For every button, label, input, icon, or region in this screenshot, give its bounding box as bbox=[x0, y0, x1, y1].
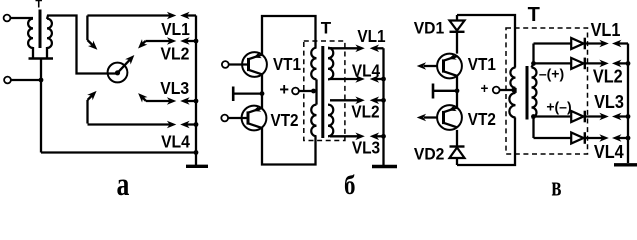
label VT2 (fig b) bbox=[271, 110, 299, 130]
svg-text:VL1: VL1 bbox=[357, 27, 385, 46]
wire VD2 to transformer (fig v) bbox=[457, 118, 515, 166]
lamp VL1 (fig b) bbox=[330, 45, 384, 53]
base arrow VT2 (fig v) bbox=[417, 114, 437, 122]
transformer T (fig b) dashed box bbox=[304, 41, 345, 141]
label VL2 (fig v) bbox=[593, 66, 623, 87]
svg-text:VD1: VD1 bbox=[414, 19, 445, 37]
svg-text:VL2: VL2 bbox=[593, 66, 623, 87]
lamp VL4 (fig b) bbox=[330, 75, 384, 83]
primary upper winding (fig v) bbox=[510, 68, 515, 88]
svg-text:VL3: VL3 bbox=[594, 91, 624, 112]
label VL4 (fig b) bbox=[352, 61, 381, 80]
label VD1 (fig v) bbox=[414, 19, 445, 37]
label VL2 (fig b) bbox=[351, 102, 379, 121]
terminal + center tap (fig b) bbox=[279, 81, 316, 99]
transformer bottom bar (fig a) bbox=[29, 47, 54, 59]
junction VL4/bus (fig b) bbox=[381, 77, 386, 82]
switch contact arrow to VL4 bbox=[87, 88, 99, 123]
label +(-) (fig v) bbox=[546, 99, 571, 115]
svg-text:VL4: VL4 bbox=[161, 132, 191, 152]
terminal + center tap (fig v) bbox=[481, 81, 516, 96]
common bar (fig v) bbox=[433, 84, 457, 99]
label T (fig a) bbox=[35, 0, 42, 11]
label v (fig v) bbox=[551, 171, 561, 203]
junction rows 3-4 (fig v) bbox=[531, 114, 536, 119]
label VL3 (fig v) bbox=[594, 91, 624, 112]
right bus (fig v) bbox=[627, 44, 629, 164]
junction bottom/bus bbox=[194, 150, 199, 155]
wire VD1 to transformer (fig v) bbox=[457, 15, 515, 68]
label T (fig v) bbox=[528, 4, 540, 26]
transformer T (fig a) secondary winding bbox=[47, 19, 52, 48]
primary lower winding (fig v) bbox=[509, 93, 515, 118]
svg-text:VT2: VT2 bbox=[271, 110, 299, 130]
label VL4 (fig v) bbox=[594, 141, 624, 162]
switch contact arrow to VL2 bbox=[135, 39, 147, 51]
svg-text:VL2: VL2 bbox=[351, 102, 379, 121]
secondary winding (fig v) bbox=[532, 68, 537, 118]
diode+lamp VL2 (fig v) bbox=[534, 58, 629, 70]
transistor VT2 (fig v) bbox=[437, 105, 462, 130]
junction VL4/bus bbox=[194, 122, 199, 127]
right bus (fig b) bbox=[382, 48, 384, 165]
primary center link (fig v) bbox=[514, 88, 516, 93]
switch contact arrow to VL1 bbox=[87, 16, 100, 53]
label VL2 (fig a) bbox=[161, 44, 190, 64]
wire secondary to VL1 (fig b) bbox=[328, 47, 332, 49]
transistor VT2 (fig b) bbox=[242, 105, 267, 130]
label VL3 (fig a) bbox=[160, 78, 189, 98]
svg-text:T: T bbox=[35, 0, 42, 11]
label VL3 (fig b) bbox=[352, 139, 380, 158]
svg-text:+(–): +(–) bbox=[546, 99, 571, 115]
center tap wire (fig a) bbox=[40, 59, 42, 153]
svg-text:в: в bbox=[551, 171, 561, 197]
lamp VL2 (fig a) bbox=[146, 37, 197, 45]
ground (fig b) bbox=[372, 165, 397, 168]
wire secondary bottom to rows (fig v) bbox=[532, 117, 534, 118]
svg-text:а: а bbox=[117, 167, 130, 197]
svg-text:–(+): –(+) bbox=[539, 66, 564, 82]
wire VT1 collector top (fig b) bbox=[262, 16, 316, 55]
diode+lamp VL3 (fig v) bbox=[534, 111, 629, 123]
lamp VL2 (fig b) bbox=[330, 97, 384, 105]
rotary switch SA1 circle bbox=[108, 63, 128, 83]
ground (fig a) bbox=[186, 153, 208, 167]
diode+lamp VL1 (fig v) bbox=[534, 38, 629, 50]
svg-text:T: T bbox=[321, 19, 332, 38]
core (fig v) bbox=[526, 66, 529, 120]
svg-text:VL3: VL3 bbox=[352, 139, 380, 158]
svg-text:VT1: VT1 bbox=[468, 54, 496, 74]
junction center tap (fig v) bbox=[511, 88, 516, 93]
bottom wire (fig a) bbox=[41, 151, 196, 153]
label VD2 (fig v) bbox=[414, 145, 445, 163]
label T (fig b) bbox=[321, 19, 332, 38]
secondary lower winding (fig b) bbox=[328, 105, 333, 137]
transformer T (fig v) dashed box bbox=[506, 28, 588, 154]
lamp VL4 (fig a) bbox=[88, 121, 197, 129]
wire VT2 bottom (fig b) bbox=[262, 128, 316, 165]
wire secondary top to rows (fig v) bbox=[532, 63, 534, 67]
wire VT1-VT2 (fig v) bbox=[456, 76, 458, 108]
lamp VL3 (fig b) bbox=[330, 133, 384, 141]
svg-text:+: + bbox=[279, 81, 289, 99]
transformer T (fig a) primary winding bbox=[28, 19, 33, 48]
transformer T (fig a) core bbox=[39, 10, 42, 49]
diode+lamp VL4 (fig v) bbox=[534, 132, 629, 144]
svg-text:T: T bbox=[528, 4, 540, 26]
junction VL2/bus (fig v) bbox=[626, 61, 631, 66]
primary upper winding (fig b) bbox=[311, 48, 316, 80]
rotary switch SA1 pivot dot bbox=[115, 70, 120, 75]
junction rows 1-2 (fig v) bbox=[531, 61, 536, 66]
transistor VT1 (fig b) bbox=[242, 52, 267, 77]
svg-text:VT2: VT2 bbox=[468, 109, 496, 129]
svg-text:б: б bbox=[344, 171, 355, 197]
lamp VL1 (fig a) bbox=[87, 12, 196, 20]
terminal X1 (fig a) bbox=[4, 15, 33, 22]
svg-text:+: + bbox=[481, 81, 489, 96]
label VT2 (fig v) bbox=[468, 109, 496, 129]
label VL1 (fig a) bbox=[161, 19, 190, 39]
rotary switch SA1 wiper arrow bbox=[118, 52, 138, 72]
junction tap/X2 (fig a) bbox=[39, 78, 44, 83]
label VL1 (fig b) bbox=[357, 27, 385, 46]
label VL4 (fig a) bbox=[161, 132, 191, 152]
diode VD2 (fig v) bbox=[450, 130, 465, 165]
svg-text:VL1: VL1 bbox=[161, 19, 190, 39]
lamp VL3 (fig a) bbox=[146, 97, 196, 105]
svg-text:VL2: VL2 bbox=[161, 44, 190, 64]
svg-text:VL3: VL3 bbox=[160, 78, 189, 98]
right bus (fig a) bbox=[195, 16, 197, 153]
svg-text:VL4: VL4 bbox=[352, 61, 381, 80]
wire VL4 branch (fig v) bbox=[532, 117, 534, 139]
diode VD1 (fig v) bbox=[450, 15, 465, 54]
terminal X2 (fig a) bbox=[4, 77, 41, 84]
base arrow VT1 (fig v) bbox=[417, 62, 437, 70]
wire VL1 branch (fig v) bbox=[532, 44, 534, 64]
label VT1 (fig b) bbox=[273, 54, 301, 74]
junction VL3/bus bbox=[194, 99, 199, 104]
junction bar/emitter (fig v) bbox=[455, 88, 460, 93]
wire VT1-VT2 (fig b) bbox=[261, 74, 263, 108]
wire secondary top to switch (fig a) bbox=[47, 16, 118, 74]
core (fig b) bbox=[321, 46, 324, 138]
svg-text:VL4: VL4 bbox=[594, 141, 624, 162]
secondary upper winding (fig b) bbox=[328, 48, 333, 80]
junction VL4/bus (fig v) bbox=[626, 136, 631, 141]
junction VL3/bus (fig b) bbox=[381, 134, 386, 139]
transistor VT1 (fig v) bbox=[437, 53, 462, 78]
label a (fig a) bbox=[117, 167, 130, 203]
svg-text:VL1: VL1 bbox=[591, 19, 621, 40]
junction center tap (fig b) bbox=[311, 89, 316, 94]
svg-text:VD2: VD2 bbox=[414, 145, 445, 163]
label -(+) (fig v) bbox=[539, 66, 564, 82]
primary center link (fig b) bbox=[315, 79, 317, 104]
label VL1 (fig v) bbox=[591, 19, 621, 40]
switch contact arrow to VL3 bbox=[135, 90, 147, 102]
junction VL2/bus (fig b) bbox=[381, 98, 386, 103]
junction VL2/bus bbox=[194, 39, 199, 44]
junction VL3/bus (fig v) bbox=[626, 114, 631, 119]
terminal base VT2 (fig b) bbox=[221, 115, 248, 122]
ground (fig v) bbox=[614, 163, 637, 166]
common bar (fig b) bbox=[233, 87, 262, 102]
junction bar/emitter wire (fig b) bbox=[260, 91, 265, 96]
label VT1 (fig v) bbox=[468, 54, 496, 74]
label b (fig b) bbox=[344, 171, 355, 200]
primary lower winding (fig b) bbox=[311, 105, 316, 137]
terminal base VT1 (fig b) bbox=[222, 61, 249, 68]
svg-text:VT1: VT1 bbox=[273, 54, 301, 74]
